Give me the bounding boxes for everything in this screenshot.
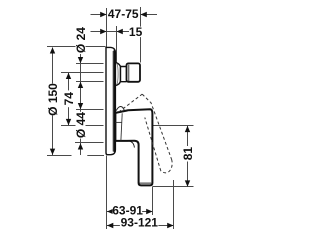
svg-text:15: 15 [129, 25, 143, 39]
svg-text:47-75: 47-75 [108, 7, 139, 21]
svg-text:81: 81 [181, 147, 195, 161]
svg-text:93-121: 93-121 [121, 216, 159, 230]
svg-text:Ø 150: Ø 150 [46, 83, 60, 116]
svg-text:Ø 24: Ø 24 [74, 27, 88, 53]
svg-text:Ø 44: Ø 44 [74, 112, 88, 138]
svg-text:74: 74 [62, 92, 76, 106]
